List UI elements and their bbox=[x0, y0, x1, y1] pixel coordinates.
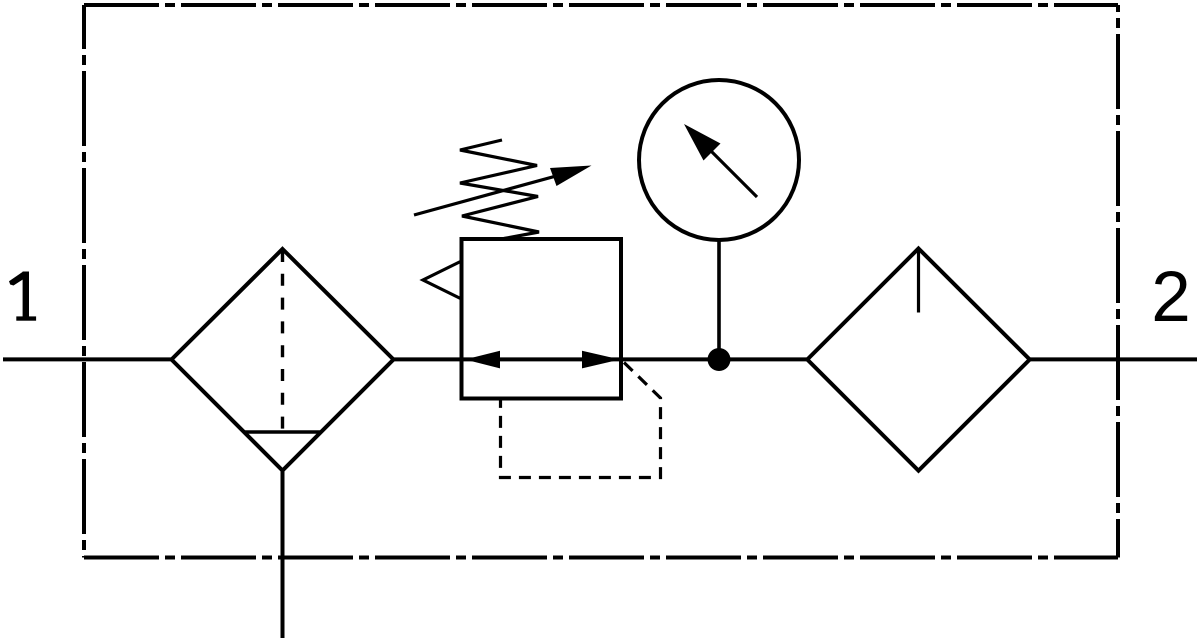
regulator flow arrow right bbox=[582, 351, 620, 369]
regulator adjustment arrow bbox=[414, 170, 578, 215]
wire: outlet pipe to port 2 bbox=[1030, 357, 1198, 361]
wire: inlet pipe from port 1 bbox=[3, 357, 172, 361]
wire: pipe from filter through regulator to junction and lubricator bbox=[394, 357, 808, 361]
enclosure border top bbox=[84, 3, 1118, 7]
pressure gauge bbox=[639, 80, 799, 240]
lubricator (right diamond) bbox=[807, 249, 1029, 471]
water separator line bbox=[245, 430, 321, 433]
gauge needle bbox=[697, 137, 757, 197]
junction node bbox=[708, 348, 731, 371]
port label 1 bbox=[9, 272, 36, 321]
regulator spring bbox=[460, 140, 539, 239]
filter with water separator (left diamond) bbox=[172, 249, 394, 471]
lubricator drip line bbox=[917, 250, 920, 313]
regulator relief vent triangle bbox=[423, 262, 461, 299]
filter element dashed centerline bbox=[281, 250, 284, 432]
regulator body bbox=[462, 239, 622, 399]
wire: condensate drain line bbox=[281, 471, 285, 639]
enclosure border bottom bbox=[84, 556, 1118, 560]
regulator flow arrow left bbox=[465, 351, 500, 369]
enclosure border right bbox=[1116, 5, 1120, 558]
regulator pilot dashed line bbox=[501, 363, 661, 478]
enclosure border left bbox=[82, 5, 86, 558]
svg-text:2: 2 bbox=[1151, 258, 1191, 337]
wire: gauge stem bbox=[717, 240, 721, 360]
